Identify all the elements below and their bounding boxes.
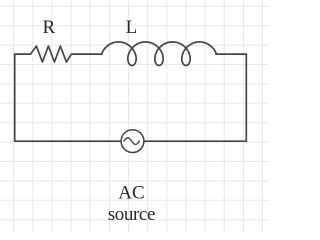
- svg-text:AC: AC: [118, 183, 144, 204]
- AC source: sine symbol: [124, 138, 139, 145]
- inductor L: [102, 42, 217, 66]
- wire between resistor and inductor: [72, 53, 102, 55]
- wire top right segment: [216, 53, 246, 55]
- resistor R: [31, 46, 72, 62]
- wire top left segment: [15, 53, 31, 55]
- AC source: circle body: [121, 130, 144, 153]
- wire bottom left segment: [15, 140, 121, 142]
- wire left side: [14, 54, 16, 141]
- svg-text:source: source: [108, 204, 155, 225]
- svg-text:L: L: [126, 17, 138, 38]
- wire right side: [245, 54, 247, 141]
- wire bottom right segment: [144, 140, 246, 142]
- svg-text:R: R: [43, 17, 56, 38]
